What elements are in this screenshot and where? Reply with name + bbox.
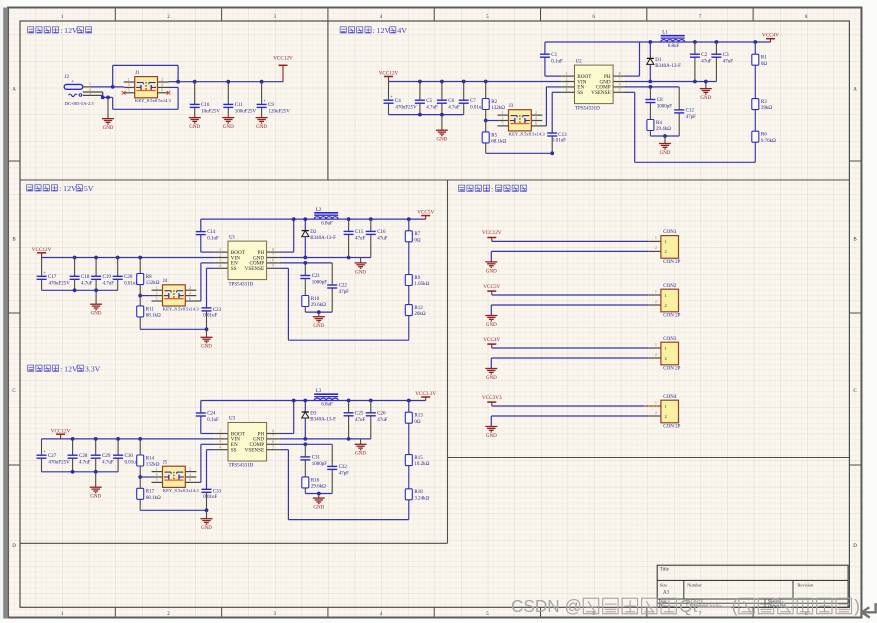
- svg-text:47uF: 47uF: [377, 418, 388, 423]
- svg-text:3: 3: [89, 91, 91, 95]
- svg-text:3: 3: [502, 116, 504, 120]
- svg-text::: :: [491, 184, 493, 193]
- svg-text:7: 7: [619, 77, 621, 81]
- svg-text:8: 8: [272, 429, 274, 433]
- svg-text:J3: J3: [509, 104, 514, 109]
- svg-text:Number: Number: [687, 583, 702, 588]
- svg-text:4V: 4V: [397, 26, 407, 35]
- svg-text:C2: C2: [701, 53, 707, 58]
- svg-text:R6: R6: [761, 133, 767, 138]
- svg-text:J1: J1: [135, 71, 140, 76]
- svg-text:2: 2: [665, 249, 667, 254]
- svg-text:1: 1: [566, 72, 568, 76]
- svg-text:C3: C3: [723, 53, 729, 58]
- svg-text:6: 6: [535, 122, 537, 126]
- svg-text:47pF: 47pF: [339, 472, 350, 477]
- svg-text:+: +: [71, 79, 74, 84]
- svg-text:+: +: [43, 270, 46, 275]
- svg-text:3: 3: [219, 440, 221, 444]
- svg-text:C21: C21: [312, 274, 321, 279]
- svg-text:C8: C8: [657, 98, 663, 103]
- svg-text:C5: C5: [426, 99, 432, 104]
- svg-text:J4: J4: [163, 279, 168, 284]
- svg-text:1.05kΩ: 1.05kΩ: [414, 282, 429, 287]
- svg-text:SS: SS: [231, 266, 237, 272]
- svg-text:4: 4: [189, 473, 191, 477]
- svg-text:68.1kΩ: 68.1kΩ: [146, 496, 161, 501]
- svg-text:C4: C4: [395, 99, 401, 104]
- svg-text:R4: R4: [656, 121, 662, 126]
- svg-text:8: 8: [619, 72, 621, 76]
- svg-text:D: D: [853, 544, 857, 549]
- svg-text:J5: J5: [163, 461, 168, 466]
- svg-text:7: 7: [272, 253, 274, 257]
- svg-text:2: 2: [665, 303, 667, 308]
- svg-text:R13: R13: [414, 414, 423, 419]
- svg-text:4.7uF: 4.7uF: [81, 281, 93, 286]
- svg-text:132kΩ: 132kΩ: [146, 281, 160, 286]
- svg-text:C27: C27: [48, 454, 57, 459]
- svg-text:C15: C15: [355, 230, 364, 235]
- svg-text:C20: C20: [124, 275, 133, 280]
- svg-text:A3: A3: [663, 591, 670, 596]
- svg-text:GND: GND: [486, 376, 497, 381]
- svg-text:R7: R7: [414, 232, 420, 237]
- svg-text:3: 3: [156, 291, 158, 295]
- svg-text:47pF: 47pF: [339, 290, 350, 295]
- svg-text:68.1kΩ: 68.1kΩ: [491, 140, 506, 145]
- svg-text:10uF25V: 10uF25V: [201, 110, 220, 115]
- svg-text:C23: C23: [213, 308, 222, 313]
- svg-text:5: 5: [272, 264, 274, 268]
- svg-text:GND: GND: [223, 125, 234, 130]
- svg-text:5: 5: [619, 88, 621, 92]
- svg-text:GND: GND: [313, 324, 324, 329]
- svg-text:+: +: [263, 98, 266, 103]
- svg-text:KEY_8.5x8.5x14.3: KEY_8.5x8.5x14.3: [163, 306, 200, 311]
- svg-text:CON 2P: CON 2P: [663, 260, 680, 265]
- svg-text:D3: D3: [310, 412, 317, 417]
- svg-text:4: 4: [566, 88, 568, 92]
- svg-text:+: +: [43, 449, 46, 454]
- svg-text:5: 5: [272, 446, 274, 450]
- svg-text:GND: GND: [436, 138, 447, 143]
- svg-text:5: 5: [502, 122, 504, 126]
- svg-text:C28: C28: [79, 454, 88, 459]
- svg-text:29.4kΩ: 29.4kΩ: [656, 127, 671, 132]
- svg-text:U1: U1: [229, 235, 236, 240]
- svg-text:20kΩ: 20kΩ: [414, 312, 426, 317]
- svg-text:): ): [854, 596, 860, 616]
- svg-text:C18: C18: [81, 275, 90, 280]
- svg-text:68.1kΩ: 68.1kΩ: [146, 314, 161, 319]
- svg-text:0Ω: 0Ω: [761, 62, 768, 67]
- svg-text:KEY_8.5x8.5x14.3: KEY_8.5x8.5x14.3: [163, 488, 200, 493]
- svg-text:100uF25V: 100uF25V: [235, 110, 257, 115]
- svg-text:2: 2: [655, 246, 657, 250]
- svg-text:J2: J2: [65, 75, 70, 80]
- svg-text:GND: GND: [355, 270, 366, 275]
- svg-text:U2: U2: [576, 59, 583, 64]
- svg-text:GND: GND: [486, 323, 497, 328]
- svg-text:47uF: 47uF: [355, 237, 366, 242]
- svg-text:VCC4V: VCC4V: [762, 33, 779, 39]
- svg-text:SS: SS: [577, 90, 583, 96]
- svg-text:VCC5V: VCC5V: [483, 284, 500, 290]
- svg-text:CON 2P: CON 2P: [663, 367, 680, 372]
- svg-text:C32: C32: [339, 465, 348, 470]
- svg-text:4: 4: [161, 83, 163, 87]
- svg-text:47uF: 47uF: [355, 418, 366, 423]
- svg-text:B340A-13-F: B340A-13-F: [310, 236, 336, 241]
- svg-text:10.2kΩ: 10.2kΩ: [414, 462, 429, 467]
- svg-text:470uF25V: 470uF25V: [49, 281, 71, 286]
- svg-text:R18: R18: [414, 490, 423, 495]
- svg-text:4.7uF: 4.7uF: [103, 281, 115, 286]
- svg-text:VCC5V: VCC5V: [417, 210, 434, 216]
- svg-text:: 12V: : 12V: [60, 364, 78, 373]
- svg-text:C6: C6: [448, 99, 454, 104]
- svg-text:GND: GND: [660, 151, 671, 156]
- svg-text:TPS54331D: TPS54331D: [229, 464, 254, 469]
- svg-text:4.7uF: 4.7uF: [448, 105, 460, 110]
- svg-text:VSENSE: VSENSE: [591, 90, 611, 96]
- svg-text:C10: C10: [201, 103, 210, 108]
- svg-text:470uF25V: 470uF25V: [48, 460, 70, 465]
- svg-text:R9: R9: [414, 276, 420, 281]
- svg-text:U3: U3: [229, 417, 236, 422]
- svg-text:29.6kΩ: 29.6kΩ: [311, 303, 326, 308]
- svg-text:R5: R5: [491, 133, 497, 138]
- svg-text:Size: Size: [660, 583, 668, 588]
- svg-text:TPS54331D: TPS54331D: [229, 282, 254, 287]
- svg-text:L1: L1: [662, 31, 668, 36]
- svg-text:VCC3V3: VCC3V3: [482, 395, 502, 401]
- svg-text:C29: C29: [102, 454, 111, 459]
- svg-text:C14: C14: [207, 230, 216, 235]
- svg-text:6.8uF: 6.8uF: [668, 44, 680, 49]
- svg-text:C26: C26: [377, 411, 386, 416]
- svg-text:VSENSE: VSENSE: [245, 448, 265, 454]
- svg-text:GND: GND: [201, 345, 212, 350]
- svg-text:39kΩ: 39kΩ: [761, 106, 773, 111]
- svg-text:GND: GND: [486, 434, 497, 439]
- svg-text:GND: GND: [103, 126, 114, 131]
- svg-text:GND: GND: [90, 495, 101, 500]
- svg-text:VCC3.3V: VCC3.3V: [415, 391, 436, 397]
- svg-text:R12: R12: [414, 306, 423, 311]
- svg-text:1: 1: [655, 343, 657, 347]
- svg-text:+: +: [390, 94, 393, 99]
- svg-text:3: 3: [128, 83, 130, 87]
- svg-text:GND: GND: [355, 452, 366, 457]
- svg-text:1: 1: [655, 401, 657, 405]
- svg-text:4: 4: [189, 291, 191, 295]
- svg-text:L2: L2: [316, 208, 322, 213]
- svg-text:1000pF: 1000pF: [312, 462, 328, 467]
- svg-text:C7: C7: [470, 99, 476, 104]
- svg-text:1: 1: [156, 467, 158, 471]
- svg-text:47pF: 47pF: [686, 115, 697, 120]
- svg-text:R10: R10: [311, 297, 320, 302]
- svg-text:47uF: 47uF: [701, 59, 712, 64]
- svg-text:1: 1: [665, 346, 667, 351]
- svg-text:C12: C12: [686, 109, 695, 114]
- svg-text:Revision: Revision: [797, 583, 814, 588]
- svg-text:3: 3: [156, 473, 158, 477]
- svg-text:1: 1: [128, 78, 130, 82]
- svg-text:C9: C9: [268, 103, 274, 108]
- svg-text:R17: R17: [146, 490, 155, 495]
- svg-text:C1: C1: [551, 53, 557, 58]
- svg-text:4.7uF: 4.7uF: [102, 460, 114, 465]
- svg-text:0.1uF: 0.1uF: [551, 59, 563, 64]
- svg-text:6: 6: [189, 478, 191, 482]
- svg-text:6: 6: [161, 89, 163, 93]
- svg-text:D: D: [12, 544, 16, 549]
- svg-text:2: 2: [665, 414, 667, 419]
- svg-text:VCC12V: VCC12V: [379, 71, 399, 77]
- svg-text:2: 2: [566, 77, 568, 81]
- svg-text:GND: GND: [486, 269, 497, 274]
- svg-text:5: 5: [156, 478, 158, 482]
- svg-text:0.1uF: 0.1uF: [207, 237, 219, 242]
- svg-text:2: 2: [189, 467, 191, 471]
- svg-text:120uF25V: 120uF25V: [269, 110, 291, 115]
- svg-text:C13: C13: [558, 133, 567, 138]
- svg-text:1: 1: [665, 293, 667, 298]
- svg-text:: 12V: : 12V: [59, 184, 77, 193]
- svg-text:132kΩ: 132kΩ: [146, 463, 160, 468]
- svg-text:0Ω: 0Ω: [414, 420, 421, 425]
- svg-text:0.01uF: 0.01uF: [203, 313, 217, 318]
- svg-text:VCC4V: VCC4V: [483, 337, 500, 343]
- svg-text:2: 2: [189, 286, 191, 290]
- svg-text:0.01uF: 0.01uF: [203, 495, 217, 500]
- svg-text:DC-005-5A-2.5: DC-005-5A-2.5: [65, 101, 95, 106]
- svg-text:A: A: [853, 87, 857, 92]
- svg-text:B340A-13-F: B340A-13-F: [310, 418, 336, 423]
- svg-text:File:: File:: [659, 603, 667, 608]
- svg-text:3: 3: [219, 259, 221, 263]
- svg-text:C30: C30: [125, 454, 134, 459]
- svg-text:2: 2: [665, 356, 667, 361]
- svg-text:1: 1: [89, 83, 91, 87]
- svg-text:5: 5: [128, 89, 130, 93]
- svg-text:1: 1: [665, 239, 667, 244]
- svg-text:R3: R3: [761, 100, 767, 105]
- svg-text:6: 6: [272, 259, 274, 263]
- svg-text:B340A-13-F: B340A-13-F: [655, 64, 681, 69]
- svg-text:2: 2: [535, 111, 537, 115]
- svg-text:2: 2: [655, 300, 657, 304]
- svg-text:6: 6: [272, 440, 274, 444]
- svg-text:1: 1: [655, 236, 657, 240]
- svg-text:Title: Title: [660, 567, 670, 572]
- svg-text:9.76kΩ: 9.76kΩ: [761, 139, 776, 144]
- svg-text:SS: SS: [231, 448, 237, 454]
- svg-text:D2: D2: [310, 230, 317, 235]
- svg-text:2: 2: [161, 78, 163, 82]
- svg-text:8: 8: [272, 248, 274, 252]
- svg-text:VCC12V: VCC12V: [273, 56, 293, 62]
- svg-text:C24: C24: [207, 412, 216, 417]
- svg-text:CSDN @: CSDN @: [511, 596, 582, 616]
- svg-text:CON1: CON1: [663, 230, 677, 235]
- svg-text:VCC12V: VCC12V: [482, 230, 502, 236]
- svg-text:C19: C19: [103, 275, 112, 280]
- svg-text:6.8uF: 6.8uF: [321, 221, 333, 226]
- svg-text:6: 6: [189, 297, 191, 301]
- svg-text:1: 1: [219, 429, 221, 433]
- svg-text:2: 2: [219, 253, 221, 257]
- svg-text:47uF: 47uF: [723, 59, 734, 64]
- svg-text:3.3V: 3.3V: [85, 364, 101, 373]
- svg-text:R2: R2: [491, 100, 497, 105]
- svg-text:3: 3: [566, 83, 568, 87]
- svg-text:4.7uF: 4.7uF: [426, 105, 438, 110]
- svg-text:R8: R8: [146, 275, 152, 280]
- svg-text:1000pF: 1000pF: [312, 281, 328, 286]
- svg-text:R15: R15: [414, 456, 423, 461]
- svg-text:CON 2P: CON 2P: [663, 314, 680, 319]
- svg-text:R16: R16: [311, 478, 320, 483]
- svg-text:0Ω: 0Ω: [414, 238, 421, 243]
- svg-text:C22: C22: [339, 284, 348, 289]
- svg-text:KEY_8.5x8.5x14.3: KEY_8.5x8.5x14.3: [135, 98, 172, 103]
- svg-text:C31: C31: [312, 456, 321, 461]
- svg-text:29.6kΩ: 29.6kΩ: [311, 485, 326, 490]
- svg-text:CON2: CON2: [663, 284, 677, 289]
- svg-text:6.8uF: 6.8uF: [321, 403, 333, 408]
- svg-text:4: 4: [219, 264, 221, 268]
- svg-text:VCC12V: VCC12V: [32, 247, 52, 253]
- svg-text:R11: R11: [146, 307, 155, 312]
- svg-text:CON4: CON4: [663, 395, 677, 400]
- svg-text:4.7uF: 4.7uF: [79, 460, 91, 465]
- svg-text:0.01uF: 0.01uF: [552, 139, 566, 144]
- svg-text:D1: D1: [655, 58, 662, 63]
- svg-text:1: 1: [156, 286, 158, 290]
- svg-text:GND: GND: [201, 526, 212, 531]
- svg-text:1: 1: [665, 404, 667, 409]
- svg-text:2: 2: [219, 435, 221, 439]
- svg-text:: 12V: : 12V: [60, 26, 78, 35]
- svg-text:1: 1: [502, 111, 504, 115]
- svg-text:0.1uF: 0.1uF: [207, 418, 219, 423]
- svg-text:1: 1: [219, 248, 221, 252]
- svg-text:C25: C25: [355, 411, 364, 416]
- svg-text:4: 4: [535, 116, 537, 120]
- svg-text:R1: R1: [761, 56, 767, 61]
- svg-text:C11: C11: [235, 103, 244, 108]
- svg-text:C17: C17: [48, 275, 57, 280]
- svg-text:VCC12V: VCC12V: [51, 429, 71, 435]
- svg-text:KEY_8.5x8.5x14.3: KEY_8.5x8.5x14.3: [509, 131, 546, 136]
- svg-text:GND: GND: [256, 125, 267, 130]
- svg-text:A: A: [12, 87, 16, 92]
- svg-text:Qt——(: Qt——(: [679, 596, 738, 616]
- svg-text:VSENSE: VSENSE: [245, 266, 265, 272]
- svg-text:GND: GND: [189, 125, 200, 130]
- svg-text:2: 2: [655, 411, 657, 415]
- svg-text:C33: C33: [213, 489, 222, 494]
- svg-text:TPS54331D: TPS54331D: [575, 106, 600, 111]
- svg-text:470uF25V: 470uF25V: [395, 105, 417, 110]
- svg-text:47uF: 47uF: [377, 237, 388, 242]
- svg-text:4: 4: [219, 446, 221, 450]
- svg-text:1: 1: [655, 290, 657, 294]
- svg-text:L3: L3: [316, 389, 322, 394]
- svg-text:GND: GND: [313, 506, 324, 511]
- svg-text:5V: 5V: [84, 184, 94, 193]
- svg-text:7: 7: [272, 435, 274, 439]
- svg-text:GND: GND: [700, 96, 711, 101]
- svg-text:GND: GND: [91, 312, 102, 317]
- svg-text:6: 6: [619, 83, 621, 87]
- svg-text:2: 2: [655, 353, 657, 357]
- svg-text:3.24kΩ: 3.24kΩ: [414, 496, 429, 501]
- svg-text:3000pF: 3000pF: [657, 105, 673, 110]
- svg-text:5: 5: [156, 297, 158, 301]
- svg-text:CON 2P: CON 2P: [663, 425, 680, 430]
- svg-text:R14: R14: [146, 456, 155, 461]
- svg-text:CON3: CON3: [663, 337, 677, 342]
- svg-text:C16: C16: [377, 230, 386, 235]
- svg-text:: 12V: : 12V: [373, 26, 391, 35]
